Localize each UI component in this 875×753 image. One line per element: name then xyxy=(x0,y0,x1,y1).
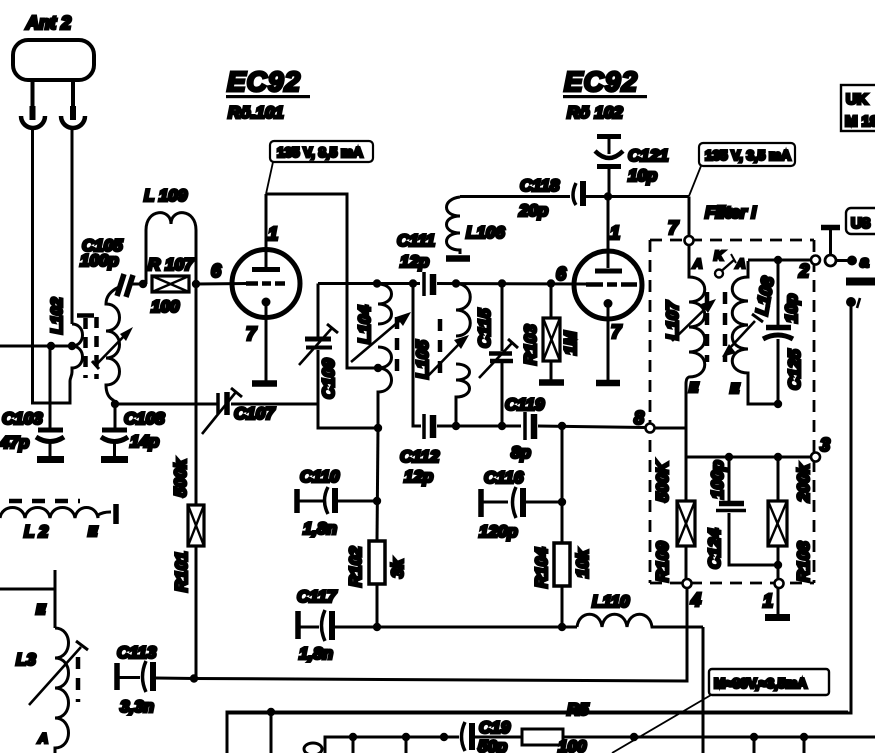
svg-text:10k: 10k xyxy=(573,548,592,578)
tube Ro102 cathode xyxy=(604,299,613,380)
svg-text:R108: R108 xyxy=(794,541,813,582)
node junction C110 R102 xyxy=(373,497,381,505)
wire antenna left leg down xyxy=(33,126,71,403)
svg-text:100p: 100p xyxy=(80,251,119,270)
wire C109 bottom to L104 bottom xyxy=(318,350,378,428)
node junction R104 bottom xyxy=(558,623,566,631)
capacitor C105 xyxy=(117,274,143,297)
node junction C115 top xyxy=(498,279,506,287)
label A K A switch annotation xyxy=(692,248,745,278)
resistor R107 xyxy=(152,276,189,292)
svg-text:R5: R5 xyxy=(567,700,589,719)
label a-prime tick xyxy=(857,298,860,308)
transformer core dashed L107 L108 xyxy=(707,292,725,362)
svg-text:1M: 1M xyxy=(561,331,580,355)
wire filter top line terminal 2 xyxy=(748,259,811,262)
wire C119 to terminal 8 xyxy=(538,426,646,428)
inductor L2 xyxy=(0,501,116,524)
node junction L104 top xyxy=(373,279,381,287)
svg-text:1,8n: 1,8n xyxy=(303,519,337,538)
pin 1 label tube Ro101 xyxy=(268,224,278,244)
wire L104 bottom to R102 xyxy=(377,428,378,541)
label R102 value 3k xyxy=(346,546,407,587)
label C107 xyxy=(234,404,276,423)
svg-text:1: 1 xyxy=(763,591,773,611)
svg-text:EC92: EC92 xyxy=(227,66,301,97)
label R103 value 1M xyxy=(521,324,580,365)
svg-text:C110: C110 xyxy=(300,467,340,486)
label L106 xyxy=(466,223,505,242)
inductor L110 xyxy=(577,614,703,627)
node junction C103 tap xyxy=(47,342,55,350)
label L107 xyxy=(663,300,682,340)
svg-text:R109: R109 xyxy=(653,541,672,582)
pin 1 terminal label xyxy=(763,591,773,611)
resistor R104 xyxy=(554,543,570,627)
wire L110 down leg xyxy=(702,627,705,753)
svg-text:135 V, 8,5 mA: 135 V, 8,5 mA xyxy=(277,145,363,160)
resistor R108 xyxy=(768,457,787,579)
wire tank bottom line y426 xyxy=(437,425,521,428)
Filter I dashed enclosure xyxy=(650,240,814,583)
svg-text:14p: 14p xyxy=(130,432,159,451)
transformer core dashed L105 xyxy=(438,319,443,375)
svg-text:C116: C116 xyxy=(484,468,524,487)
label R5 value 100 xyxy=(558,700,589,753)
label UK M19 box xyxy=(841,85,875,131)
node terminal 3 xyxy=(811,453,820,462)
label callout box 135V 8.5mA xyxy=(266,141,373,194)
tube Ro101 cathode xyxy=(262,298,271,382)
resistor R5 xyxy=(522,729,875,745)
svg-text:L3: L3 xyxy=(16,650,36,669)
blacked bar xyxy=(846,278,875,286)
label EC92 Ro 102 xyxy=(563,66,647,122)
capacitor C121 xyxy=(595,137,623,197)
svg-text:50p: 50p xyxy=(478,737,507,753)
label L3 E A xyxy=(16,601,48,746)
svg-text:A: A xyxy=(37,730,48,746)
label callout box M 80V 3.5mA xyxy=(612,669,829,753)
label L2 E xyxy=(24,522,98,541)
wire inner stub 1 xyxy=(352,737,355,753)
capacitor C111 xyxy=(424,272,433,296)
svg-text:L110: L110 xyxy=(592,592,630,611)
svg-text:C109: C109 xyxy=(319,358,338,399)
tube Ro102 anode xyxy=(595,197,622,271)
label E L108 xyxy=(730,380,740,396)
node junction R101 bottom xyxy=(190,674,198,682)
wire terminal 1 to ground xyxy=(777,588,780,614)
antenna Ant 2 symbol xyxy=(13,40,94,128)
capacitor C118 xyxy=(573,181,689,206)
ground C103 xyxy=(37,456,64,463)
wire next stage inner line xyxy=(325,737,444,753)
capacitor C108 xyxy=(101,404,128,457)
svg-text:C107: C107 xyxy=(234,404,276,423)
inductor L102 secondary winding xyxy=(106,287,120,402)
node junction C19 left xyxy=(440,733,448,741)
arrow L3 variable xyxy=(29,641,88,705)
node terminal 2 xyxy=(811,256,820,265)
wire grid line tube Ro102 xyxy=(437,282,587,286)
label L105 xyxy=(413,340,432,379)
svg-text:R102: R102 xyxy=(346,546,365,587)
wire inner stub 2 xyxy=(405,737,408,753)
node terminal 8 xyxy=(646,424,655,433)
arrow L105 variable xyxy=(426,335,469,378)
wire junction stub down xyxy=(270,712,273,753)
wire R109 branch xyxy=(685,428,688,501)
label C110 value 1,8n xyxy=(300,467,340,538)
label EC92 Ro.101 xyxy=(226,66,310,122)
ground L106 xyxy=(446,255,470,262)
wire R104 branch xyxy=(561,426,564,543)
svg-text:C119: C119 xyxy=(505,395,545,414)
ground tube Ro102 cathode xyxy=(596,380,620,387)
pin 3 terminal label xyxy=(820,435,830,455)
node junction C124 R108 bottom xyxy=(774,561,782,569)
node junction L102 tap xyxy=(68,342,76,350)
pin 8 terminal label xyxy=(634,408,644,428)
label L110 xyxy=(592,592,630,611)
node junction C125 top xyxy=(774,256,782,264)
capacitor C112 xyxy=(424,414,433,439)
capacitor C124 xyxy=(716,457,778,565)
svg-text:R104: R104 xyxy=(532,547,551,588)
node junction R107 left xyxy=(139,280,147,288)
tube Ro101 grid dashes xyxy=(246,281,285,286)
label C113 value 3,3n xyxy=(117,643,157,716)
svg-text:6: 6 xyxy=(211,261,222,281)
ground C108 xyxy=(101,456,128,463)
inductor L108 xyxy=(732,261,778,404)
label R104 value 10k xyxy=(532,547,592,588)
label C119 value 8p xyxy=(505,395,545,462)
svg-text:100: 100 xyxy=(151,297,180,316)
svg-text:L104: L104 xyxy=(355,305,374,344)
wire anode rail to terminal 7 xyxy=(688,197,691,237)
svg-text:M 19: M 19 xyxy=(845,113,875,130)
pin 2 terminal label xyxy=(798,261,809,281)
node terminal 7 xyxy=(685,236,694,245)
svg-text:C125: C125 xyxy=(785,349,804,390)
svg-text:K: K xyxy=(714,248,725,263)
svg-text:L 109: L 109 xyxy=(144,186,188,205)
transformer core dashed L104 xyxy=(395,317,400,376)
label C121 value 10p xyxy=(628,146,669,185)
arrow L102 secondary variable xyxy=(92,327,133,369)
node junction inner 1 xyxy=(349,733,357,741)
node junction bottom b1 xyxy=(750,733,758,741)
svg-text:C121: C121 xyxy=(628,146,669,165)
label R107 value 100 xyxy=(148,255,195,316)
svg-text:Rö 102: Rö 102 xyxy=(567,103,623,122)
svg-text:UK: UK xyxy=(846,91,868,108)
svg-text:Filter I: Filter I xyxy=(705,203,757,222)
node junction bottom rail xyxy=(267,708,275,716)
svg-text:8p: 8p xyxy=(511,443,531,462)
capacitor C117 xyxy=(298,610,377,641)
ground R103 xyxy=(539,379,564,386)
node terminal 4 xyxy=(683,579,692,588)
ground tube Ro101 cathode xyxy=(252,380,277,387)
inductor L106 xyxy=(447,197,571,255)
label Filter I xyxy=(705,203,757,222)
svg-text:C124: C124 xyxy=(705,528,724,569)
node junction R102 bottom xyxy=(373,623,381,631)
wire AVC bus to terminal 4 xyxy=(194,589,687,681)
inductor L107 xyxy=(686,245,705,428)
svg-text:R101: R101 xyxy=(172,551,191,592)
svg-text:8: 8 xyxy=(634,408,644,428)
capacitor C125 xyxy=(763,260,793,404)
node junction anode C121 xyxy=(604,192,612,200)
label C109 xyxy=(319,358,338,399)
label C112 value 12p xyxy=(400,447,440,486)
label L108 xyxy=(752,275,778,317)
label R101 value 500k xyxy=(171,458,191,592)
resistor R101 xyxy=(188,284,204,679)
capacitor C107 trimmer xyxy=(202,388,242,434)
svg-text:200k: 200k xyxy=(794,463,813,503)
svg-text:3,3n: 3,3n xyxy=(120,697,154,716)
svg-text:C118: C118 xyxy=(520,176,560,195)
inductor L109 xyxy=(146,213,196,284)
node junction C116 R104 xyxy=(558,498,566,506)
label U8 box xyxy=(846,208,875,234)
inductor L102 primary winding xyxy=(70,324,83,381)
wire filter bias line y457 xyxy=(686,456,811,459)
wire terminal 8 to L107 leg xyxy=(654,427,686,430)
svg-text:100: 100 xyxy=(558,737,587,753)
wire antenna right leg down xyxy=(71,126,74,324)
svg-text:3: 3 xyxy=(820,435,830,455)
node junction inner 2 xyxy=(402,733,410,741)
label C116 value 120p xyxy=(479,468,524,541)
node junction L104 tap xyxy=(374,364,382,372)
inductor L104 xyxy=(378,284,392,428)
label C111 value 12p xyxy=(397,231,435,271)
svg-text:1,8n: 1,8n xyxy=(299,644,333,663)
label R109 value 500K xyxy=(653,460,672,582)
node junction C124 top xyxy=(725,453,733,461)
node junction C125 bottom xyxy=(774,400,782,408)
inductor L105 xyxy=(456,284,470,427)
svg-text:500k: 500k xyxy=(171,458,190,497)
node a-prime xyxy=(846,297,856,307)
tube Ro102 grid dashes xyxy=(586,282,637,287)
svg-text:4: 4 xyxy=(690,590,701,610)
tube U Ro102 EC92 envelope xyxy=(574,251,642,319)
svg-text:12p: 12p xyxy=(404,467,433,486)
label C105 value 100p xyxy=(80,236,123,270)
capacitor C115 trimmer xyxy=(479,284,518,427)
svg-text:C108: C108 xyxy=(124,409,165,428)
wire grid to tube Ro101 xyxy=(196,282,247,286)
label C118 value 20p xyxy=(518,176,560,220)
svg-text:135 V, 3,5 mA: 135 V, 3,5 mA xyxy=(705,148,791,163)
node junction R5 right xyxy=(630,733,638,741)
tube Ro101 anode xyxy=(252,194,280,270)
svg-text:A: A xyxy=(692,256,702,271)
resistor R103 xyxy=(543,284,560,381)
svg-text:7: 7 xyxy=(611,322,622,342)
node junction C112 branch top xyxy=(409,279,417,287)
label C124 value 100p xyxy=(705,460,727,569)
node junction C115 bottom xyxy=(498,422,506,430)
node junction C108 top xyxy=(111,400,119,408)
node junction R104 top xyxy=(558,422,566,430)
svg-text:C115: C115 xyxy=(475,308,494,348)
svg-text:7: 7 xyxy=(246,324,257,344)
pin 7 label tube Ro102 xyxy=(611,322,622,342)
label L104 xyxy=(355,305,374,344)
node junction L105 top xyxy=(452,279,460,287)
label C19 value 50p xyxy=(478,718,511,753)
wire AVC line y403 xyxy=(115,403,218,406)
svg-text:E: E xyxy=(730,380,740,396)
capacitor C110 xyxy=(297,487,377,514)
resistor R109 xyxy=(677,501,695,579)
svg-text:47p: 47p xyxy=(0,433,29,452)
node a xyxy=(847,256,857,266)
label L109 xyxy=(144,186,188,205)
svg-text:2: 2 xyxy=(798,261,809,281)
label L102 xyxy=(49,297,66,334)
svg-text:L102: L102 xyxy=(49,297,66,334)
label C108 value 14p xyxy=(124,409,165,451)
svg-text:1: 1 xyxy=(610,223,620,243)
resistor R102 xyxy=(369,541,385,627)
node junction R103 top xyxy=(547,279,555,287)
label C115 xyxy=(475,308,494,348)
svg-text:U8: U8 xyxy=(851,215,870,232)
antenna tick above output xyxy=(821,228,840,256)
label callout box 135V 3.5mA xyxy=(689,143,795,196)
tube U Ro101 EC92 envelope xyxy=(232,250,300,318)
wire cathode line y627 xyxy=(377,626,577,629)
svg-text:C117: C117 xyxy=(297,587,338,606)
node junction R107 right xyxy=(192,280,200,288)
svg-text:120p: 120p xyxy=(479,522,518,541)
svg-text:10p: 10p xyxy=(782,294,801,323)
svg-text:EC92: EC92 xyxy=(564,66,638,97)
transformer L102 core dashed lines xyxy=(86,317,97,379)
arrow L108 variable xyxy=(722,314,763,357)
capacitor C109 trimmer xyxy=(299,324,338,365)
node output socket circle xyxy=(825,255,836,266)
wire grid2 line y283 xyxy=(318,282,420,285)
node junction L104 bottom xyxy=(374,424,382,432)
pin 7 label tube Ro101 xyxy=(246,324,257,344)
capacitor C119 xyxy=(525,412,534,440)
transformer L102 core adjust T-bar xyxy=(77,313,94,318)
pin 6 label tube Ro101 xyxy=(211,261,222,281)
label Ant 2 xyxy=(25,13,71,33)
wire socket to node a xyxy=(836,259,848,262)
svg-text:L106: L106 xyxy=(466,223,505,242)
wire C107 to C109 branch xyxy=(231,403,318,406)
label a xyxy=(860,254,869,271)
svg-text:20p: 20p xyxy=(518,201,548,220)
svg-text:R103: R103 xyxy=(521,324,540,365)
wire next stage box top xyxy=(227,712,848,753)
svg-text:Ant 2: Ant 2 xyxy=(25,13,71,33)
capacitor C116 xyxy=(481,487,562,518)
wire B+ anode rail to L104 tap xyxy=(266,194,378,368)
pin 1 label tube Ro102 xyxy=(610,223,620,243)
wire chassis line to L102 tap xyxy=(0,345,72,348)
pin 7 terminal label xyxy=(668,218,679,238)
node junction L105 bottom xyxy=(452,422,460,430)
label partial 0 xyxy=(304,743,322,753)
svg-text:500K: 500K xyxy=(653,460,672,502)
wire C112 branch xyxy=(413,284,421,427)
svg-text:3k: 3k xyxy=(388,558,407,578)
capacitor C19 xyxy=(444,722,522,751)
svg-text:C113: C113 xyxy=(117,643,157,662)
pin 4 terminal label xyxy=(690,590,701,610)
label E L107 xyxy=(689,379,699,395)
svg-text:A: A xyxy=(735,256,745,271)
label C125 value 10p xyxy=(782,294,804,390)
svg-text:C111: C111 xyxy=(397,231,435,250)
wire right return bus xyxy=(227,305,851,713)
svg-text:Rö.101: Rö.101 xyxy=(228,103,284,122)
inductor L3 xyxy=(0,570,78,753)
label C117 value 1,8n xyxy=(297,587,338,663)
label R108 value 200k xyxy=(794,463,813,582)
svg-text:6: 6 xyxy=(556,264,567,284)
svg-text:C103: C103 xyxy=(2,409,43,428)
wire bottom stub b1 xyxy=(753,737,756,753)
svg-text:10p: 10p xyxy=(628,166,657,185)
wire bottom stub b2 xyxy=(803,737,806,753)
svg-text:a: a xyxy=(860,254,869,271)
node junction R108 top xyxy=(774,453,782,461)
pin 6 label tube Ro102 xyxy=(556,264,567,284)
svg-text:C112: C112 xyxy=(400,447,440,466)
capacitor C113 xyxy=(117,661,194,692)
ground terminal 1 xyxy=(765,614,790,621)
label C103 value 47p xyxy=(0,409,43,452)
svg-text:R 107: R 107 xyxy=(148,255,195,274)
svg-text:L 2: L 2 xyxy=(24,522,49,541)
arrow L104 variable xyxy=(351,312,411,362)
node terminal 1 xyxy=(775,579,784,588)
svg-text:C19: C19 xyxy=(479,718,511,737)
arrow L107 variable xyxy=(672,299,716,341)
svg-text:E: E xyxy=(88,523,98,539)
wire C109 branch vertical xyxy=(317,284,320,338)
svg-text:1: 1 xyxy=(268,224,278,244)
svg-text:E: E xyxy=(689,379,699,395)
svg-text:E: E xyxy=(36,601,46,617)
svg-text:12p: 12p xyxy=(400,252,429,271)
capacitor C103 xyxy=(36,346,64,457)
svg-text:100p: 100p xyxy=(708,460,727,499)
svg-text:7: 7 xyxy=(668,218,679,238)
svg-text:M≈80V,≈3,5mA: M≈80V,≈3,5mA xyxy=(714,676,807,691)
node junction bottom b2 xyxy=(800,733,808,741)
